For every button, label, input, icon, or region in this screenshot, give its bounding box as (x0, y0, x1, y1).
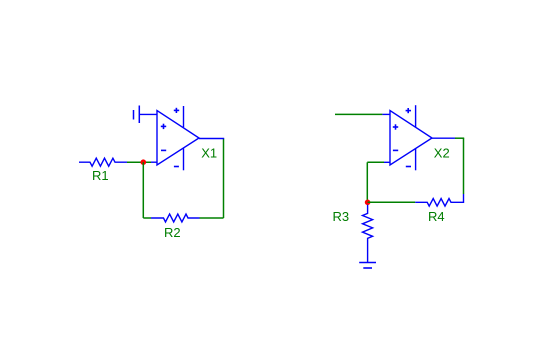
op-amp X2 positive supply pin (406, 105, 416, 127)
svg-text:X2: X2 (434, 145, 450, 160)
wire junction to R2 (143, 217, 151, 219)
wire battery to op-amp noninverting input (139, 113, 157, 115)
op-amp X1 noninverting input marker (161, 124, 166, 129)
pin stub R4 up (463, 194, 465, 203)
op-amp X2 inverting input marker (393, 149, 398, 151)
op-amp X1 inverting input marker (161, 149, 166, 151)
battery V1 (134, 106, 140, 124)
pin stub noninverting input X2 (382, 113, 390, 115)
pin stub inverting input X2 (384, 161, 390, 163)
wire op-amp X1 output (199, 138, 224, 140)
ground (359, 263, 376, 269)
wire output corner (455, 137, 464, 139)
op-amp X1 triangle (157, 111, 199, 166)
op-amp X2 noninverting input marker (393, 124, 398, 129)
resistor R3 (363, 205, 373, 262)
op-amp X2 triangle (390, 111, 432, 166)
node junction dot left (141, 159, 147, 165)
wire R1 to inverting input (127, 161, 151, 163)
resistor R2 (151, 214, 200, 222)
pin stub inverting input X1 (151, 161, 157, 163)
wire input X2 noninverting (335, 113, 382, 115)
wire R2 to feedback corner (200, 217, 224, 219)
op-amp X2 negative supply pin (406, 148, 416, 170)
svg-text:R2: R2 (164, 225, 181, 240)
svg-text:R1: R1 (92, 168, 109, 183)
wire feedback vertical (223, 139, 225, 218)
svg-text:X1: X1 (201, 145, 217, 160)
op-amp X1 positive supply pin (174, 106, 184, 127)
node junction dot right (365, 200, 371, 206)
wire feedback vertical right (463, 138, 465, 194)
svg-text:R4: R4 (428, 209, 445, 224)
wire junction to R4 (368, 201, 416, 203)
wire junction down (142, 162, 144, 218)
resistor R4 (415, 199, 463, 207)
wire inverting down to junction (366, 162, 368, 202)
resistor R1 (79, 158, 127, 166)
op-amp X1 negative supply pin (174, 148, 184, 170)
wire inverting input X2 left (367, 161, 384, 163)
svg-text:R3: R3 (333, 209, 350, 224)
wire op-amp X2 output (432, 137, 456, 139)
